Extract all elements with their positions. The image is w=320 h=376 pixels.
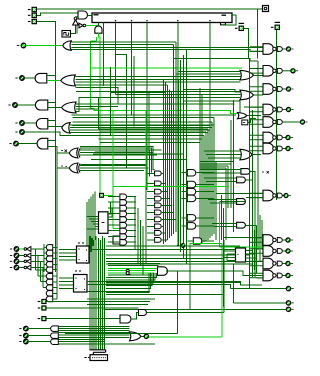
wire bright jog 112 [91,108,238,113]
wire dark 177 down [176,271,178,334]
wire S1 tap bright [112,111,114,196]
AND L5 [155,210,162,215]
wire bright bottom [149,336,222,338]
wire fan v4 [42,268,44,288]
output pin B1 [15,130,24,135]
wire bus3 k [99,138,202,140]
label E overbar [239,22,245,24]
wire MUX1 in3 [93,223,99,225]
wire CLK1 to U2 [71,25,76,34]
wire vbundle2-3 [205,132,207,241]
wire F in2 [58,330,129,332]
wire rail 256 [256,225,258,273]
wire R4 in1 [204,150,241,152]
wire mv 219 bright [218,202,220,248]
AND M0 [187,170,196,177]
wire M1 in [181,184,187,186]
wire H4 out [141,335,144,337]
wire K0 in [108,196,120,198]
output pin C0 [10,265,19,270]
AND H1 [113,236,125,244]
wire bus4 a [80,146,155,169]
NAND N12 [250,270,293,281]
wire G1 in5 [108,274,153,276]
wire N8 in a [216,192,263,194]
wire MUX2 inv [226,254,228,261]
NAND N3 [250,84,294,95]
wire bbundle1 [91,238,93,350]
wire R4 out [252,154,261,156]
OR H4 [130,332,142,341]
wire Q1 in1 [200,169,241,171]
wire D0 in [53,246,57,248]
wire IC3 in [31,248,44,250]
wire O0 in2 [71,44,173,46]
wire drop 103 [103,23,105,87]
wire bot long3 [106,282,240,284]
wire D4 tip [44,269,46,271]
wire leftdrop2 [90,197,92,253]
wire K1 in [108,201,120,203]
wire mh 168 [200,167,226,169]
wire G0 [28,328,51,330]
wire IC1 in [31,260,44,262]
wire band58 [173,59,258,61]
wire A3 out [17,104,35,106]
wire fan h2 [38,275,46,277]
wire bus3 i [100,131,206,133]
input pin A1 [28,13,37,18]
wire F in7 [58,340,104,342]
wire K2 out [127,207,136,209]
clock AND U4 down [95,26,102,33]
wire G1 fan1 [106,273,155,280]
wire R1 out [254,75,264,77]
wire vert 110 [110,67,112,136]
wire out P14 [233,302,286,304]
wire X1 in3 [80,154,157,156]
wire G1 in2 [108,267,157,269]
wire M6 out [202,240,214,242]
wire DEC1 left1 [59,252,76,254]
AND L8 [155,231,162,236]
input pin A2 [28,7,37,13]
wire C0 [19,267,26,269]
wire vbundle0 [162,80,164,244]
wire O3 in4 [70,132,208,134]
AND K7 [120,234,127,240]
wire P3 out [245,224,256,226]
XOR X2 left [69,163,80,173]
wire mv 233 [233,100,235,232]
wire dark 177 left [65,333,177,335]
wire bus4 f [91,159,187,161]
AND E4 [46,296,53,301]
wire A5 out [24,122,36,124]
wire register loop right [221,15,236,25]
wire D2 right [47,318,121,320]
wire PB1 out [248,119,256,123]
output pin H4p [144,334,148,338]
wire rail 250 [249,59,251,289]
wire M4 in [181,217,187,219]
AND E3 [46,291,52,296]
wire D0 right [47,301,151,303]
AND L0 [155,171,162,176]
wire D2 in [53,258,57,260]
RAM RAM1 [85,355,108,361]
wire N12 in b [257,277,263,279]
wire L4 out [161,204,171,206]
wire A0 down left rail [37,22,55,273]
wire P1 out [245,179,252,181]
AND M5 [187,223,196,230]
wire reg clk stub [97,23,99,27]
wire D3 in [53,263,57,265]
wire F in 344 [58,343,155,345]
AND D1 [46,250,52,255]
wire P2 in1 [208,199,237,201]
AND L4 [155,203,162,208]
AND D4 [46,267,53,272]
wire M5 in [181,225,187,227]
wire C2 [19,255,26,257]
wire bright N10 in [219,246,263,248]
label R4 [262,171,269,174]
wire M6 in [187,240,193,242]
wire mv 216 [215,162,217,240]
AND L2 [155,189,162,194]
wire K6 in [108,230,120,232]
wire R2-R3 link [239,100,241,113]
wire L2 out [161,191,167,193]
wire P3 in2 [214,226,237,228]
output pin C2 [10,253,19,258]
wire fan h4 [43,286,46,288]
output pin T1 [263,6,269,12]
wire K8 in [108,241,120,243]
wire decB jog1 [87,282,262,285]
wire G1 [28,335,51,337]
input pin D2 [38,316,47,321]
wire M3 in [181,197,187,199]
input pin F [271,25,280,31]
wire fan v3 [40,261,42,281]
wire L1 out [161,182,165,184]
AND P2 [237,199,246,205]
wire bus4 e [93,153,184,155]
wire bright left down [90,41,92,108]
AND K4 [120,217,127,223]
input pin S1 [99,193,104,198]
wire bot 258.6 [106,258,223,260]
wire O1 in3 [75,81,240,83]
wire U1 to register [88,15,93,17]
wire bus3 d [72,114,237,116]
AND H3 [120,315,131,323]
wire clk junction [76,26,78,34]
OR R4 [240,149,252,160]
wire bbundle6 [102,236,104,350]
wire N11 in long [106,260,263,262]
wire MUX1 in1 [89,218,99,220]
wire M2 in [181,191,187,193]
wire leftdrop4 [94,192,96,241]
wire bus4 c [80,150,150,177]
wire O2 in1 [76,103,235,105]
label X2 [61,165,67,168]
inverter IC1 [24,259,31,264]
NAND N9 [250,235,293,246]
wire D0 tip [44,246,46,248]
wire rail 254 [254,230,256,270]
wire vbundle2 [166,85,168,240]
wire MUX2 in2 [223,257,235,259]
wire X2 stub [57,167,69,169]
wire X2 in1 [80,164,146,166]
wire H3 out [131,313,139,319]
wire vbundle2-7 [213,118,215,234]
wire R2 in1 [184,90,241,92]
wire vbundle2-2 [203,136,205,242]
wire rail F 276 [276,30,278,200]
AND A5 left [36,119,48,130]
wire L8 in [147,232,155,234]
wire rail 259 [259,215,261,262]
decoder DEC1 [77,243,90,263]
output pin B2 [15,121,24,126]
wire vb3 b [180,60,182,252]
wire M1 out [196,184,214,186]
wire R1 in1 [179,71,241,73]
wire bus3 f [73,121,212,123]
wire D3 tip [44,263,46,265]
wire L0 out [161,172,163,174]
AND K1 [120,200,127,206]
wire A6 in1 stub [48,140,56,142]
wire G1 fan3 [106,273,152,286]
AND L3 [155,196,162,201]
AND F2 [51,339,59,345]
mux MUX2 [236,248,246,262]
wire X1 in1 [80,149,162,151]
wire E4 in [53,298,57,300]
wire L3 out [161,198,169,200]
wire bus2 e [116,94,241,96]
AND F0 [51,326,59,332]
wire M0 in [181,172,187,174]
wire vbundle3 [168,90,170,238]
clock CLK1 [62,31,71,38]
wire R4 in3 [208,157,241,159]
wire A1 to AND U1 [37,13,78,15]
wire K5 in [108,224,120,226]
wire A3 in2 [48,107,62,109]
wire mv 221 [221,195,223,240]
wire DEC2 left3 [59,288,73,290]
wire bbundle5 [99,240,101,350]
output pin C1 [10,259,19,264]
probe box PB1 [242,120,248,125]
wire M5 out [196,225,214,227]
NAND N5 [250,117,308,128]
wire fan v2 [37,256,39,277]
wire Q1 in2 [202,172,241,174]
wire L6 out [161,218,175,220]
wire Kstep2 [108,208,120,217]
wire fan h3 [41,281,47,283]
AND P3 [237,222,246,228]
AND M4 [187,215,196,222]
wire D1 right [47,307,139,309]
output pin B3 [8,103,17,108]
AND L7 [155,224,162,229]
wire Kout v2 [140,220,142,266]
register REG1 [92,13,232,25]
inverter IC2 [24,253,31,258]
wire A5 in2 [48,125,62,127]
AND D0 [46,245,53,250]
wire rail 262 [261,220,263,250]
wire bus4 b [80,148,151,172]
wire leftdrop1 [88,199,90,258]
wire DEC1 left3 [59,259,76,261]
wire vb3 d [186,50,188,264]
wire O3 in1 [70,124,214,126]
AND L1 [155,181,162,186]
wire G1 in4 [108,272,154,274]
wire A6 in2 from X1 [48,146,69,153]
wire F in0 [58,325,129,327]
wire A2 top rail [37,8,258,10]
wire bus1 bright66 [91,67,101,69]
wire bbundle4 [97,238,99,350]
wire L5 in [147,211,155,213]
wire mh 161 [200,161,234,163]
wire O1 in1 [75,76,240,78]
wire vbundle2-1 [201,95,203,244]
OR R1 [240,70,254,80]
output pin G1 [19,333,28,338]
wire pinE down [244,28,249,58]
wire vert 148.8 [148,91,150,151]
AND K8 [120,240,127,246]
output pin P15 [286,307,293,311]
wire vb3 c [183,55,185,258]
wire bus1 bright67 [100,67,242,69]
wire bot long0 [106,254,250,256]
wire vbundle1 [164,82,166,242]
input pin D1 [38,305,47,310]
XOR X1 left [69,148,80,158]
wire C3 [19,248,26,250]
inverter IC3 [24,247,31,252]
wire K7 out [127,235,136,237]
OR R3 [238,113,247,119]
wire B1 long [24,132,204,136]
wire L9 in [147,239,155,241]
junction bubbles [126,269,129,274]
wire DEC1 left2 [59,256,76,258]
wire A3 in1 stub [48,102,56,104]
wire vert 98.5 [98,98,100,129]
wire mh 163 [200,163,231,165]
AND M2 [187,188,196,195]
wire MUX1 in4 [95,226,99,228]
wire IC0 in [31,267,44,269]
wire bus2 corner [75,88,118,104]
wire bus3 e [73,117,214,119]
wire A1 in1 stub [47,75,56,77]
wire G2 [28,341,51,343]
AND A6 left [37,138,48,149]
wire vbundle4 [170,91,172,236]
NAND N1 [250,44,294,55]
wire O1 in4 [75,84,167,86]
wire decB jog2 [87,285,231,289]
AND A1 left [35,73,47,83]
wire bright mid long [113,186,228,188]
wire O0 in4 [71,50,263,52]
wire R3 out [247,115,261,117]
wire A6 out [18,143,37,145]
wire K1 out [127,201,136,203]
wire reg q0 drop [209,23,211,201]
wire out P15 [104,308,287,310]
wire K5 out [127,224,136,226]
wire bbundle3 [95,236,97,350]
wire bright stub96 [96,37,98,41]
wire L7 out [161,225,163,227]
OR O0 left [63,41,72,51]
wire MUX2 out1 [246,250,253,252]
wire K6 out [127,230,136,232]
wire E3 in [53,292,57,294]
wire O0 in3 [71,47,263,49]
AND P1 [237,177,246,183]
wire vbundle2-6 [211,122,213,236]
OR O2 left [62,102,77,113]
wire L8 out [161,232,165,234]
wire L3 in [147,198,155,200]
wire F in5 [58,336,129,338]
wire reg q4 drop [115,23,117,95]
NAND N4 [250,104,294,115]
wire rail 258 [257,61,259,250]
AND G1 [158,267,168,276]
inverter U3 right [79,23,86,28]
output pin B0 [9,141,18,146]
wire DEC2 left2 [59,284,73,286]
wire M3 out [196,197,214,199]
wire MUX1 in5 [87,228,99,230]
wire N8 in b [246,197,263,199]
output pin G0 [19,326,28,331]
wire K4 in [108,218,120,220]
wire mh 166 [200,165,228,167]
AND U1 clock gate [78,11,88,19]
AND K3 [120,211,127,217]
wire L2 in [147,191,155,193]
wire bright bottom up [221,243,223,337]
wire G1 in1 [108,265,159,267]
wire G1 fan0 [106,273,157,277]
NAND N8 [250,190,291,201]
wire bus3 h [99,128,208,130]
wire stub to pin T1 [258,8,263,10]
output pin G2 [19,339,28,344]
AND E2 [46,285,52,290]
